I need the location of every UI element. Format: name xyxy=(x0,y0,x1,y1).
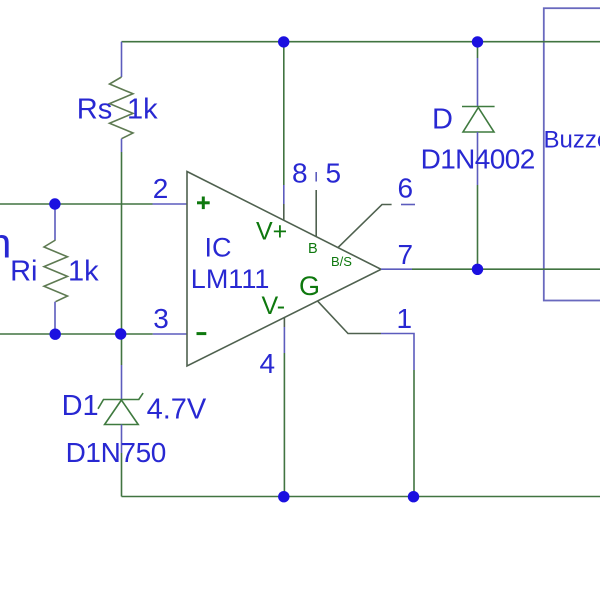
junction node pin2/Ri xyxy=(49,198,60,209)
wire pin8 from top rail xyxy=(283,42,285,185)
svg-text:Ri: Ri xyxy=(10,256,37,288)
junction node pin3/Rs xyxy=(115,328,126,339)
resistor Ri xyxy=(44,240,68,302)
svg-text:D: D xyxy=(432,104,453,136)
wire output pin7 xyxy=(412,268,600,270)
buzzer box xyxy=(544,8,600,300)
wire pin2 blue stub xyxy=(153,203,188,205)
resistor Rs xyxy=(110,77,134,139)
pin 6 blue dash xyxy=(401,204,415,206)
wire pin7 blue stub xyxy=(381,268,412,270)
svg-text:7: 7 xyxy=(398,239,414,270)
svg-text:Buzzer: Buzzer xyxy=(544,127,600,154)
svg-text:4.7V: 4.7V xyxy=(147,394,207,426)
svg-text:IC: IC xyxy=(205,232,232,262)
svg-text:B: B xyxy=(308,241,318,257)
svg-text:V-: V- xyxy=(262,292,286,320)
junction node bottom rail pin1 xyxy=(408,491,419,502)
wire pin4 down xyxy=(283,353,285,497)
svg-text:V+: V+ xyxy=(256,218,287,246)
wire pin8 blue stub xyxy=(283,185,285,204)
junction node bottom rail pin4 xyxy=(278,491,289,502)
junction node pin3/Ri xyxy=(50,329,61,340)
pin 5 lead xyxy=(315,190,317,237)
svg-text:LM111: LM111 xyxy=(191,264,270,294)
pin 8 lead xyxy=(283,204,285,220)
svg-text:4: 4 xyxy=(260,348,276,379)
wire top rail xyxy=(122,41,600,43)
wire pin4 blue stub xyxy=(283,327,285,353)
wire Rs to node xyxy=(121,152,123,365)
svg-text:6: 6 xyxy=(398,173,414,204)
svg-text:G: G xyxy=(299,271,320,301)
wire diode D top lead xyxy=(477,42,479,58)
wire zener top lead (blue) xyxy=(121,365,123,400)
wire Ri top lead (blue) xyxy=(54,204,56,240)
pin 1 lead xyxy=(318,301,382,334)
op-amp minus input mark xyxy=(197,332,207,335)
junction node top rail pin8 xyxy=(278,36,289,47)
op-amp plus input mark xyxy=(197,197,210,210)
wire zener to bottom rail xyxy=(121,453,123,497)
svg-text:D1N4002: D1N4002 xyxy=(421,144,535,175)
svg-text:B/S: B/S xyxy=(331,254,352,269)
pin 6 lead xyxy=(338,205,392,248)
junction node top rail diode xyxy=(472,36,483,47)
svg-text:1k: 1k xyxy=(68,256,99,288)
wire diode D to output xyxy=(477,185,479,269)
pin 4 lead xyxy=(283,317,285,327)
pin 5 blue dash xyxy=(315,172,317,182)
wire diode D top lead (blue) xyxy=(477,58,479,107)
wire Ri bottom lead (blue) xyxy=(54,302,56,334)
svg-text:1: 1 xyxy=(397,303,413,334)
wire input pin2 xyxy=(0,203,153,205)
svg-text:8: 8 xyxy=(292,158,308,189)
svg-text:2: 2 xyxy=(153,173,169,204)
svg-text:3: 3 xyxy=(153,303,169,334)
junction node output diode xyxy=(472,264,483,275)
wire Rs top lead (blue) xyxy=(121,42,123,77)
wire diode D bottom lead (blue) xyxy=(477,132,479,185)
op-amp U1 triangle xyxy=(187,172,381,367)
wire pin3 blue stub xyxy=(153,333,187,335)
diode D xyxy=(462,107,495,133)
svg-text:D1: D1 xyxy=(62,390,99,422)
zener diode D1 xyxy=(98,393,143,424)
wire pin1 down xyxy=(413,370,415,497)
wire pin1 blue stub xyxy=(381,334,414,371)
wire zener bottom lead (blue) xyxy=(121,425,123,454)
svg-text:Rs: Rs xyxy=(77,94,112,126)
wire input pin3 xyxy=(0,333,153,335)
svg-text:5: 5 xyxy=(326,158,342,189)
svg-text:1k: 1k xyxy=(127,94,158,126)
svg-text:D1N750: D1N750 xyxy=(66,437,166,468)
wire bottom rail xyxy=(122,496,600,498)
wire Rs bottom lead (blue) xyxy=(121,139,123,152)
